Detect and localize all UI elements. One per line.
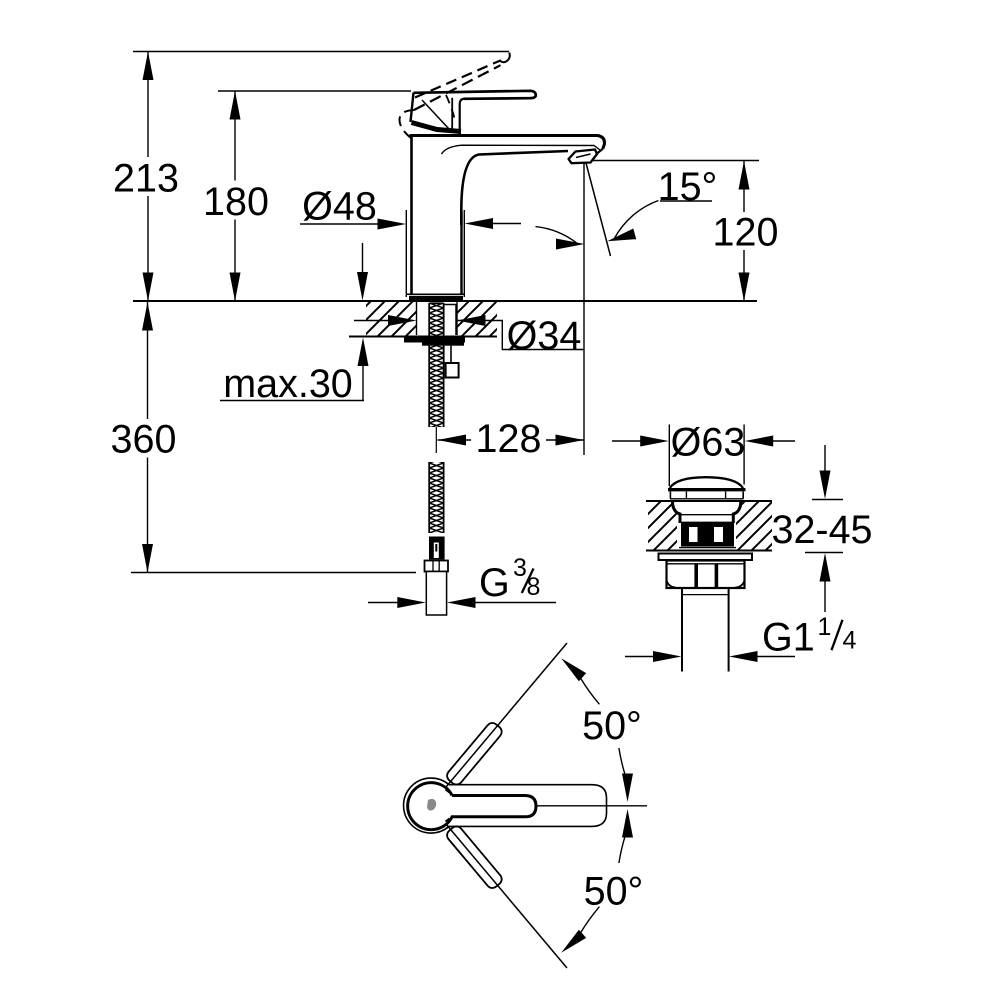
svg-text:3: 3 xyxy=(513,554,527,582)
svg-text:1: 1 xyxy=(818,613,832,641)
svg-text:360: 360 xyxy=(111,418,177,462)
svg-text:128: 128 xyxy=(476,417,542,461)
svg-text:213: 213 xyxy=(113,156,179,200)
svg-text:Ø63: Ø63 xyxy=(671,420,746,464)
svg-text:180: 180 xyxy=(203,180,269,224)
svg-text:G: G xyxy=(479,561,510,605)
svg-text:50°: 50° xyxy=(584,870,644,914)
svg-text:8: 8 xyxy=(527,573,541,601)
svg-text:max.30: max.30 xyxy=(223,362,353,406)
svg-text:4: 4 xyxy=(843,627,857,655)
svg-text:15°: 15° xyxy=(658,165,718,209)
svg-text:Ø48: Ø48 xyxy=(302,185,377,229)
svg-text:32-45: 32-45 xyxy=(771,508,872,552)
svg-text:G1: G1 xyxy=(762,616,815,660)
svg-text:Ø34: Ø34 xyxy=(507,314,582,358)
svg-text:120: 120 xyxy=(713,211,779,255)
svg-text:50°: 50° xyxy=(582,704,642,748)
